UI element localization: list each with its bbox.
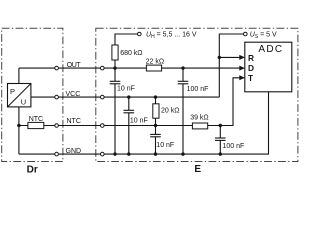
transducer P/U: [8, 84, 31, 107]
terminal GND ecu side: [101, 152, 105, 156]
svg-text:T: T: [248, 73, 253, 83]
wire NTC row: [19, 125, 192, 127]
wire OUT row: [19, 67, 116, 69]
svg-text:20 kΩ: 20 kΩ: [161, 107, 179, 114]
arrow into R pin: [239, 55, 245, 60]
junction C3-GND: [181, 152, 184, 155]
wire VCC row: [31, 96, 219, 98]
junction P/U-NTC: [17, 124, 20, 127]
wire C2 branch VCC to GND: [128, 97, 130, 110]
terminal UH supply: [138, 32, 142, 36]
svg-text:10 nF: 10 nF: [156, 142, 174, 149]
svg-text:OUT: OUT: [67, 62, 82, 69]
terminal GND sensor side: [55, 152, 59, 156]
wire US supply to R input: [219, 34, 245, 97]
svg-text:D: D: [248, 63, 254, 73]
svg-text:VCC: VCC: [66, 91, 81, 98]
wire C5 branch T to GND: [219, 126, 221, 139]
wire C1 branch OUT to GND: [114, 68, 116, 81]
wire 39k to T input: [208, 78, 240, 126]
svg-text:ADC: ADC: [258, 44, 283, 55]
wire P/U top to OUT: [18, 68, 20, 83]
junction R tap: [218, 56, 221, 59]
junction C2-GND: [127, 152, 130, 155]
junction NTC-20k-C4: [154, 124, 157, 127]
terminal VCC ecu side: [101, 95, 105, 99]
wire R to ADC: [219, 56, 240, 58]
junction C5-GND: [219, 152, 222, 155]
wire C4 branch NTC to GND: [155, 126, 157, 135]
junction VCC-20k: [154, 95, 157, 98]
svg-text:100 nF: 100 nF: [223, 143, 245, 150]
capacitor 10 nF (NTC): [150, 134, 161, 136]
capacitor 10 nF (OUT): [110, 81, 121, 84]
wire 20k branch VCC to NTC: [155, 97, 157, 125]
resistor 39 kOhm: [192, 123, 207, 129]
junction D-C3: [181, 66, 184, 69]
ECU box E (dash-dot border): [96, 28, 298, 161]
junction C1-GND: [113, 152, 116, 155]
ADC block: [245, 42, 292, 92]
wire GND row: [19, 92, 269, 154]
wire P/U bottom to GND: [18, 107, 20, 154]
svg-text:U: U: [21, 98, 26, 107]
terminal OUT sensor side: [55, 66, 59, 70]
svg-text:GND: GND: [66, 148, 82, 155]
resistor 680 kOhm: [112, 45, 118, 60]
svg-text:39 kΩ: 39 kΩ: [190, 115, 208, 122]
svg-text:Dr: Dr: [27, 165, 38, 176]
terminal NTC sensor side: [55, 124, 59, 128]
arrow into T pin: [239, 75, 245, 80]
svg-text:R: R: [248, 53, 254, 63]
wire 680k branch: [115, 34, 139, 68]
svg-text:22 kΩ: 22 kΩ: [146, 59, 164, 66]
resistor 22 kOhm: [146, 65, 161, 71]
svg-text:680 kΩ: 680 kΩ: [120, 50, 142, 57]
svg-text:100 nF: 100 nF: [187, 86, 209, 93]
wire OUT to D input: [115, 67, 240, 69]
resistor 20 kOhm: [153, 104, 159, 118]
svg-text:10 nF: 10 nF: [130, 118, 148, 125]
svg-text:E: E: [194, 164, 201, 175]
svg-text:NTC: NTC: [67, 118, 81, 125]
capacitor 10 nF (VCC): [124, 110, 135, 113]
svg-text:NTC: NTC: [29, 116, 43, 123]
junction C4-GND: [154, 152, 157, 155]
capacitor 100 nF (T): [215, 138, 226, 140]
wire C3 branch D to GND: [182, 68, 184, 81]
arrow into D pin: [239, 66, 245, 71]
terminal US supply: [244, 32, 248, 36]
junction OUT/680k/C1: [113, 66, 116, 69]
junction T-C5: [219, 124, 222, 127]
sensor box Dr (dash-dot border): [2, 28, 63, 161]
capacitor 100 nF (D): [178, 81, 189, 84]
svg-text:10 nF: 10 nF: [117, 86, 135, 93]
terminal NTC ecu side: [101, 124, 105, 128]
resistor NTC: [28, 122, 44, 128]
terminal VCC sensor side: [55, 95, 59, 99]
terminal OUT ecu side: [101, 66, 105, 70]
svg-text:P: P: [10, 87, 15, 96]
junction VCC-C2: [127, 95, 130, 98]
